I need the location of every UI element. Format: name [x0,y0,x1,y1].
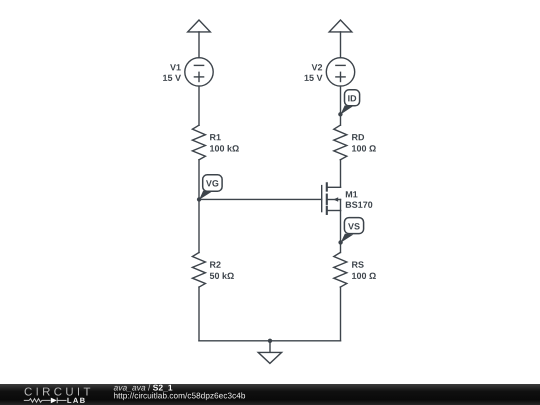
label RS [352,261,364,267]
ground lead [269,341,271,353]
footer url [114,392,245,400]
wire [198,160,200,253]
logo resistor glyph [24,398,67,404]
logo diode glyph [51,398,57,404]
power flag arrow V2 [329,20,352,32]
wire [198,32,200,58]
transistor M1 body arrow [333,197,338,202]
transistor M1 source lead [328,210,341,212]
voltage source V2 [326,58,354,86]
transistor M1 gate bar [321,186,323,212]
transistor M1 drain lead [328,186,341,188]
wire gate [199,198,322,200]
wire [198,287,200,341]
node VG junction [197,197,201,201]
transistor M1 body-source link [340,200,342,211]
wire [340,160,342,188]
node VG pointer [199,191,212,200]
node ID pointer [340,105,352,114]
logo CIRCUIT [25,388,91,396]
node VS pointer [341,234,354,243]
voltage source V1 [185,58,213,86]
label RD [352,134,364,140]
footer credit line [114,386,146,392]
resistor RD [334,125,347,160]
power flag arrow V1 [188,20,211,32]
wire [340,32,342,58]
label M1 [346,191,358,197]
resistor R1 [192,125,205,160]
wire [340,211,342,253]
node ID flag [345,90,360,106]
wire [340,86,342,125]
resistor RS [334,253,347,288]
ground [258,352,281,363]
label R1 [210,134,221,140]
wire [340,287,342,341]
node VS flag [344,218,363,234]
node VG flag [203,175,222,191]
label R2 [210,261,221,267]
logo LAB [67,398,84,403]
label V2 [312,64,323,70]
ground junction [268,339,272,343]
transistor M1 channel bars [326,183,328,190]
node ID junction [338,112,342,116]
transistor M1 body line [328,199,341,201]
wire [199,340,341,342]
resistor R2 [192,253,205,288]
node VS junction [338,240,342,244]
label V1 [170,64,181,70]
wire [198,86,200,125]
